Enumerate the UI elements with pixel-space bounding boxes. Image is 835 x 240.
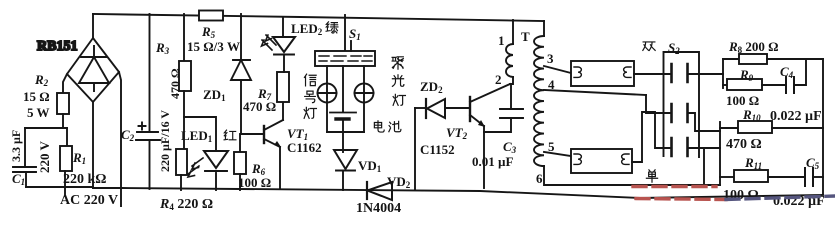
wire tap5 to lamp xyxy=(544,152,571,156)
label R6 100 xyxy=(238,161,271,190)
RC network bottom left vertical xyxy=(719,122,721,185)
fluorescent lamp 2 xyxy=(571,149,632,173)
label C2 220uF/16V xyxy=(121,110,172,172)
svg-text:2: 2 xyxy=(495,72,502,87)
red dashes on rail xyxy=(636,199,726,200)
wire bottom left xyxy=(26,186,93,188)
svg-text:R5: R5 xyxy=(201,24,216,40)
svg-text:T: T xyxy=(521,29,530,44)
wire tap4 xyxy=(544,90,646,95)
LED LED2 xyxy=(262,17,296,72)
wire top rail xyxy=(93,14,544,21)
svg-text:RB151: RB151 xyxy=(37,39,77,54)
label C3 0.01uF xyxy=(472,139,517,169)
resistor R9 xyxy=(723,84,727,86)
bridge rectifier RB151 xyxy=(67,38,119,102)
svg-text:R4 220 Ω: R4 220 Ω xyxy=(159,197,213,212)
svg-text:100 Ω: 100 Ω xyxy=(238,175,271,190)
wire bridge bottom riser xyxy=(92,102,94,188)
label shuang (double) xyxy=(643,42,655,50)
transformer T secondary xyxy=(534,21,544,166)
svg-text:VT2: VT2 xyxy=(446,125,468,141)
wire bridge top riser xyxy=(92,14,94,38)
zener ZD2 xyxy=(415,99,470,190)
svg-text:220 V: 220 V xyxy=(37,140,52,173)
label R2 15 ohm 5 W xyxy=(23,72,50,120)
svg-text:C1: C1 xyxy=(12,171,25,187)
svg-text:ZD1: ZD1 xyxy=(203,87,226,103)
label C1 3.3uF 220V xyxy=(9,130,52,187)
label R5 15ohm/3W xyxy=(187,24,240,54)
wire row1 exit xyxy=(688,73,723,75)
diode VD2 on rail xyxy=(367,182,392,200)
svg-text:6: 6 xyxy=(536,171,543,186)
svg-text:VD1: VD1 xyxy=(358,158,382,174)
label R3 470 xyxy=(155,40,182,99)
switch S1 xyxy=(315,15,375,66)
transformer T primary xyxy=(506,20,513,84)
svg-text:3.3 µF: 3.3 µF xyxy=(9,130,23,162)
wire R2 bottom to node xyxy=(62,114,64,128)
svg-text:R2: R2 xyxy=(34,72,49,88)
spot lamp right xyxy=(355,66,374,132)
svg-text:C5: C5 xyxy=(806,155,820,171)
svg-text:R8 200 Ω: R8 200 Ω xyxy=(728,39,779,55)
wire pin6 dan wire xyxy=(544,166,720,185)
svg-text:470 Ω: 470 Ω xyxy=(168,68,182,99)
resistor R8 xyxy=(723,58,739,60)
resistor R3 xyxy=(179,14,191,148)
svg-text:15 Ω/3 W: 15 Ω/3 W xyxy=(187,39,240,54)
label VT2 C1152 xyxy=(420,125,468,157)
wire bottom rail xyxy=(93,188,823,198)
svg-text:470 Ω: 470 Ω xyxy=(243,99,276,114)
resistor R5 xyxy=(199,11,223,21)
blue dashes on rail xyxy=(726,196,835,200)
svg-text:S2: S2 xyxy=(668,40,680,56)
svg-text:S1: S1 xyxy=(349,26,361,42)
wire tap4 dropper to switch row2 xyxy=(646,95,671,113)
label hong (red) xyxy=(224,130,236,140)
svg-text:R9: R9 xyxy=(739,67,754,83)
svg-text:C1162: C1162 xyxy=(287,140,322,155)
wire row2 exit xyxy=(688,113,720,131)
label R7 470 xyxy=(243,86,276,114)
svg-text:R11: R11 xyxy=(744,155,762,171)
resistor R6 xyxy=(239,134,241,152)
resistor R10 xyxy=(720,127,738,129)
label dian chi (battery) xyxy=(374,121,401,132)
switch S2 contacts row2 xyxy=(672,104,688,122)
signal lamp left xyxy=(318,66,337,132)
label R11 xyxy=(723,155,762,203)
svg-text:220 kΩ: 220 kΩ xyxy=(63,172,107,187)
label ju guang deng (spotlight) xyxy=(392,57,405,105)
switch S2 frame xyxy=(664,52,700,157)
svg-text:15 Ω: 15 Ω xyxy=(23,89,50,104)
svg-text:C4: C4 xyxy=(780,64,794,80)
switch S2 contacts row1 xyxy=(672,64,688,82)
label R1 220k xyxy=(63,150,107,187)
resistor R1 xyxy=(66,128,68,146)
wire R3 to LED1 xyxy=(184,117,216,151)
svg-text:100 Ω: 100 Ω xyxy=(726,93,759,108)
resistor R7 xyxy=(277,72,289,102)
svg-text:5: 5 xyxy=(548,139,555,154)
svg-text:VD2: VD2 xyxy=(387,174,411,190)
svg-text:1: 1 xyxy=(498,33,505,48)
fluorescent lamp 1 xyxy=(571,61,634,86)
zener ZD1 xyxy=(231,14,251,134)
label pins 3 4 5 6 xyxy=(536,51,555,186)
LED LED1 xyxy=(188,151,228,190)
resistor R4 xyxy=(176,149,187,175)
svg-text:LED1: LED1 xyxy=(181,128,213,144)
label xin hao deng (signal lamp) xyxy=(304,74,316,118)
transistor VT2 xyxy=(470,84,510,188)
wire row3 exit xyxy=(688,147,720,149)
capacitor C1 xyxy=(13,128,36,187)
label R10 xyxy=(726,107,762,152)
resistor R2 xyxy=(57,93,69,114)
svg-text:ZD2: ZD2 xyxy=(420,79,443,95)
svg-text:AC 220 V: AC 220 V xyxy=(60,193,118,208)
svg-text:0.01 µF: 0.01 µF xyxy=(472,154,513,169)
svg-text:R1: R1 xyxy=(72,150,86,166)
capacitor C3 xyxy=(484,84,523,132)
label VT1 C1162 xyxy=(287,126,322,155)
svg-text:5 W: 5 W xyxy=(27,105,50,120)
capacitor C4 xyxy=(786,77,794,93)
svg-text:220 µF/16 V: 220 µF/16 V xyxy=(158,110,172,172)
wire node A horizontal xyxy=(25,127,67,129)
wire bridge left to R2 xyxy=(63,74,67,93)
battery xyxy=(330,66,356,132)
transistor VT1 xyxy=(241,102,283,188)
capacitor C5 xyxy=(805,168,813,186)
label T pins 1 2 xyxy=(495,29,530,87)
svg-text:C3: C3 xyxy=(503,139,517,155)
resistor R11 xyxy=(720,176,734,178)
svg-text:R3: R3 xyxy=(155,40,170,56)
wire lamp2 riser to switch xyxy=(632,112,671,162)
diode VD1 xyxy=(334,132,357,190)
svg-text:0.022 µF: 0.022 µF xyxy=(770,109,822,124)
wire right vertical xyxy=(822,59,824,194)
svg-text:R10: R10 xyxy=(742,107,761,123)
svg-text:470 Ω: 470 Ω xyxy=(726,137,762,152)
red dashes on dan wire xyxy=(633,185,716,188)
wire lamp battery junction xyxy=(327,131,364,133)
svg-text:3: 3 xyxy=(547,51,554,66)
svg-text:LED2: LED2 xyxy=(291,21,323,37)
wire tap3 to lamp xyxy=(544,66,571,73)
label VD2 1N4004 xyxy=(356,174,411,216)
wire lamp1 to switch xyxy=(634,73,671,75)
label R9 100 xyxy=(726,67,759,108)
svg-text:C1152: C1152 xyxy=(420,142,455,157)
label dan (single) xyxy=(646,170,657,182)
capacitor C2 xyxy=(136,14,160,189)
RC network top left vertical xyxy=(722,59,724,88)
wire bridge right dropper AC lead xyxy=(119,72,121,206)
svg-text:1N4004: 1N4004 xyxy=(356,201,401,216)
svg-text:C2: C2 xyxy=(121,127,135,143)
wire riser 704 xyxy=(703,148,705,185)
switch S2 contacts row3 xyxy=(672,138,688,156)
